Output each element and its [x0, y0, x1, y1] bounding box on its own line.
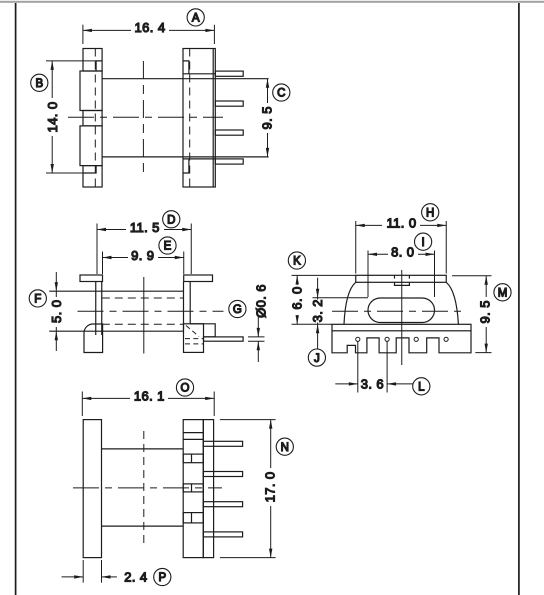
dim I extension lines — [367, 251, 369, 298]
label H — [422, 204, 439, 221]
dim B extension lines — [46, 60, 96, 62]
left flange — [83, 420, 101, 558]
svg-text:D: D — [167, 214, 175, 226]
slot box 1 — [183, 454, 203, 463]
right flange body — [183, 49, 215, 188]
pin (side) — [204, 337, 244, 341]
dim F line 5.0 with outside arrows — [55, 272, 57, 291]
winding tube lower edge + extension to dim C — [102, 156, 269, 158]
dim A extension lines — [82, 25, 84, 44]
left flange top notch — [96, 61, 102, 71]
mid section line — [143, 277, 145, 354]
pin hidden path in foot (dashed) — [185, 338, 203, 340]
dim A line 16.4 — [83, 29, 215, 31]
dim H line 11.0 — [356, 224, 447, 226]
svg-text:F: F — [34, 294, 41, 306]
svg-text:11. 0: 11. 0 — [387, 216, 417, 231]
dim B line 14.0 — [51, 61, 53, 173]
svg-text:M: M — [498, 288, 508, 300]
svg-text:P: P — [158, 572, 166, 584]
pin 4 — [203, 532, 242, 537]
tube hidden upper wall (dashed) — [102, 297, 184, 299]
svg-text:H: H — [426, 208, 434, 220]
pin hole 2 — [385, 337, 389, 341]
svg-text:11. 5: 11. 5 — [130, 220, 160, 235]
vertical hidden line (dashed) — [143, 431, 145, 546]
right flange stem right edge — [189, 282, 191, 324]
svg-text:A: A — [192, 13, 200, 25]
vertical centerline — [142, 61, 144, 175]
right flange top notch — [183, 61, 189, 74]
dim H extension lines — [355, 221, 357, 274]
right flange column — [183, 420, 203, 558]
svg-text:C: C — [277, 88, 285, 100]
horizontal centerline — [332, 310, 464, 312]
horizontal centerline — [68, 116, 223, 118]
right flange lower step line — [183, 158, 215, 160]
dim P extension lines — [82, 560, 84, 583]
svg-text:9. 9: 9. 9 — [131, 248, 154, 263]
pin hole 3 — [414, 337, 418, 341]
pin comb outline — [332, 331, 471, 353]
tube top edge + F extension — [49, 290, 183, 292]
svg-text:O: O — [181, 383, 190, 395]
right flange upper step line — [183, 73, 215, 75]
label N — [276, 438, 293, 455]
label F — [29, 290, 46, 307]
border: right frame line — [518, 3, 520, 595]
left flange lower bump — [80, 126, 102, 166]
svg-text:16. 1: 16. 1 — [134, 389, 165, 404]
border: top grey rule — [0, 1, 544, 3]
left flange upper bump — [80, 71, 102, 111]
horizontal centerline — [78, 310, 224, 312]
pin hole 4 — [444, 337, 448, 341]
tube hidden lower wall (dashed) — [102, 323, 184, 325]
dim G arrows 0.6 — [257, 316, 259, 337]
dim K extension lines — [292, 274, 356, 276]
dim I line 8.0 — [368, 253, 435, 255]
pin 1 — [215, 71, 243, 76]
label L — [413, 378, 430, 395]
left flange bottom tab — [83, 166, 102, 187]
svg-text:17. 0: 17. 0 — [263, 471, 278, 502]
dim M extension lines — [452, 275, 492, 277]
svg-text:Ø0. 6: Ø0. 6 — [254, 284, 269, 318]
dim N line 17.0 — [270, 420, 272, 558]
dim G pin ticks — [248, 336, 265, 338]
flange slot band — [183, 432, 203, 434]
svg-text:L: L — [418, 382, 425, 394]
svg-text:I: I — [421, 237, 424, 249]
svg-text:14. 0: 14. 0 — [45, 102, 60, 133]
svg-text:9. 5: 9. 5 — [478, 300, 493, 323]
tube top edge — [102, 448, 184, 450]
right flange pin-seat edge — [212, 49, 214, 188]
slot box 3 — [183, 513, 203, 523]
dim O line 16.1 — [82, 397, 214, 399]
svg-text:E: E — [164, 241, 172, 253]
horizontal centerline — [73, 487, 222, 489]
svg-text:J: J — [314, 353, 320, 365]
right flange bottom notch — [183, 159, 189, 173]
pin hole 1 — [356, 337, 360, 341]
base plate band — [332, 324, 471, 331]
label B — [31, 74, 48, 91]
notch below bar — [395, 282, 410, 285]
right flange stem left edge — [183, 282, 185, 331]
dome left arc — [344, 282, 356, 324]
right flange top cap — [184, 275, 213, 282]
label K — [288, 252, 305, 269]
left flange top cap — [80, 275, 103, 282]
dim D line 11.5 — [97, 229, 191, 231]
pin 1 — [203, 441, 242, 446]
label D — [163, 211, 180, 228]
svg-text:G: G — [233, 304, 242, 316]
dim 3.2 arrows outside — [317, 278, 319, 298]
pin 2 — [215, 101, 243, 106]
svg-text:K: K — [293, 256, 301, 268]
dim L line 3.6 outside arrows — [335, 383, 358, 385]
dim L extension lines — [357, 341, 359, 392]
label P — [154, 568, 171, 585]
svg-text:16. 4: 16. 4 — [135, 20, 166, 35]
dim P line 2.4 outside arrows — [62, 576, 84, 578]
right flange hidden edge (dashed) — [189, 49, 191, 188]
pin 2 — [203, 472, 242, 477]
svg-text:5. 0: 5. 0 — [49, 300, 64, 323]
svg-text:6. 0: 6. 0 — [290, 286, 305, 309]
label M — [494, 284, 511, 301]
label C — [273, 84, 290, 101]
left flange stem left edge — [95, 282, 97, 336]
dim M line 9.5 — [485, 276, 487, 353]
label G — [229, 300, 246, 317]
pin header column — [203, 420, 213, 558]
left flange waist — [83, 111, 102, 126]
svg-text:8. 0: 8. 0 — [391, 245, 414, 260]
pin 3 — [215, 130, 243, 135]
pin 4 — [215, 159, 243, 164]
vertical centerline — [401, 270, 403, 365]
tube bottom edge — [102, 525, 184, 527]
left flange hidden edge (dashed) — [94, 49, 96, 188]
border: left frame line — [15, 3, 17, 595]
left flange bottom notch — [83, 166, 96, 173]
dim C line 9.5 — [267, 79, 269, 157]
dim O extension lines — [81, 392, 83, 417]
slot box 2 — [183, 484, 203, 492]
top bar — [356, 275, 447, 282]
left flange stem right edge — [101, 282, 103, 336]
dim E extension lines — [102, 252, 104, 275]
dim K line 6.0 — [296, 275, 298, 324]
right foot — [184, 324, 204, 353]
dim D extension lines — [96, 224, 98, 275]
label E — [159, 237, 176, 254]
label A — [187, 9, 204, 26]
dim 3.2 extension line — [313, 297, 369, 299]
dim N extension lines — [220, 419, 276, 421]
dome right arc — [446, 282, 458, 324]
label I — [415, 233, 432, 250]
pin 3 — [203, 502, 242, 507]
svg-text:2. 4: 2. 4 — [124, 569, 147, 584]
svg-text:B: B — [35, 78, 43, 90]
winding tube upper edge + extension to dim C — [102, 78, 269, 80]
left foot (rounded corner) — [84, 324, 103, 353]
winding hole (obround) — [368, 298, 435, 323]
svg-text:N: N — [281, 442, 289, 454]
top bar notch ticks — [394, 275, 396, 278]
left flange top tab — [83, 49, 102, 72]
tube bottom edge + F extension — [49, 330, 183, 332]
label J — [308, 349, 325, 366]
label J leader — [317, 324, 319, 349]
svg-text:3. 2: 3. 2 — [310, 299, 325, 322]
label O — [176, 379, 193, 396]
right foot step — [190, 324, 215, 337]
svg-text:9. 5: 9. 5 — [260, 106, 275, 129]
dim E line 9.9 — [103, 257, 184, 259]
svg-text:3. 6: 3. 6 — [361, 376, 384, 391]
